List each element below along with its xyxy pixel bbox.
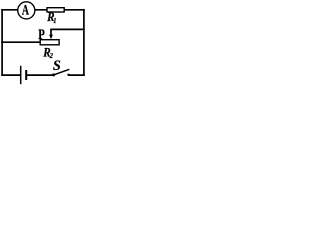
- svg-text:A: A: [22, 2, 29, 18]
- battery long plate: [20, 66, 22, 84]
- label R2: [42, 45, 50, 60]
- switch S lever: [54, 69, 70, 75]
- wire slider P to right: [51, 28, 85, 30]
- wire left: [1, 9, 3, 76]
- resistor R1 box: [47, 8, 64, 12]
- label P: [38, 26, 45, 42]
- switch S right contact: [67, 74, 69, 76]
- wire top: [1, 9, 85, 11]
- svg-text:S: S: [53, 58, 61, 74]
- rheostat slider stem: [50, 29, 52, 36]
- wire middle-left to R2: [1, 41, 40, 43]
- wire bottom right (switch to corner): [68, 74, 85, 76]
- wire bottom left (to battery): [1, 74, 20, 76]
- switch S left contact: [52, 73, 55, 76]
- wire bottom middle (battery to switch): [26, 74, 53, 76]
- wire right: [83, 9, 85, 76]
- ammeter label A: [22, 2, 29, 18]
- rheostat slider arrowhead: [49, 35, 53, 40]
- battery short plate: [25, 70, 27, 80]
- rheostat R2 box: [40, 40, 59, 45]
- ammeter U1 circle: [18, 2, 35, 19]
- svg-text:1: 1: [53, 16, 56, 25]
- svg-text:P: P: [38, 26, 45, 42]
- label S: [53, 58, 61, 74]
- label R1: [46, 9, 54, 24]
